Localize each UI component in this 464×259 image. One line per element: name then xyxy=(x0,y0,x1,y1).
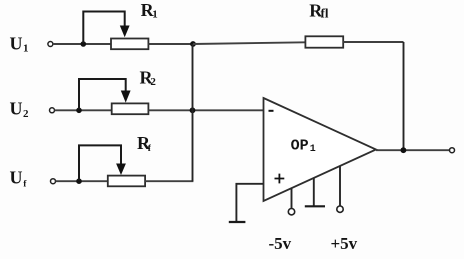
wire Rfl to feedback corner xyxy=(343,41,403,43)
svg-text:2: 2 xyxy=(23,108,29,120)
wire pin offset null xyxy=(313,178,315,206)
wire U1 terminal to R1 xyxy=(53,43,111,45)
svg-text:+5v: +5v xyxy=(331,234,358,253)
wiper arrow Rf xyxy=(116,164,126,176)
wire R1 to bus xyxy=(148,43,193,45)
node junction row1 bus xyxy=(190,41,196,47)
wire Rf to bus xyxy=(145,180,193,182)
resistor R1 xyxy=(111,39,148,50)
resistor Rfl xyxy=(305,36,343,47)
svg-text:-5v: -5v xyxy=(269,234,292,253)
svg-text:2: 2 xyxy=(150,76,156,88)
wire Uf terminal to Rf xyxy=(56,180,108,182)
node output terminal xyxy=(450,148,455,153)
svg-text:U: U xyxy=(10,168,23,188)
wire wiper loop R2 xyxy=(79,79,126,109)
node junction row2 bus xyxy=(190,107,196,113)
node junction row1 left xyxy=(81,41,87,47)
svg-text:fl: fl xyxy=(321,6,329,21)
svg-text:f: f xyxy=(23,180,27,190)
wire bus to feedback resistor Rfl xyxy=(193,42,305,44)
resistor R2 xyxy=(112,103,149,114)
wire output xyxy=(376,149,449,151)
svg-text:f: f xyxy=(148,144,152,154)
svg-text:1: 1 xyxy=(152,9,158,21)
wire pin V- xyxy=(291,188,293,208)
svg-text:1: 1 xyxy=(23,43,29,55)
wiper arrow R1 xyxy=(120,26,130,38)
resistor Rf xyxy=(108,176,145,187)
node Uf input terminal xyxy=(51,179,56,184)
node output junction xyxy=(401,147,407,153)
svg-text:U: U xyxy=(10,99,23,119)
node junction row3 left xyxy=(76,178,82,184)
label minus input xyxy=(269,110,274,112)
label plus input xyxy=(275,174,285,184)
op-amp OP1 xyxy=(264,98,377,201)
svg-text:1: 1 xyxy=(310,144,316,155)
wire summing bus vertical xyxy=(192,44,194,181)
wire pin V+ xyxy=(339,166,341,206)
svg-text:OP: OP xyxy=(291,137,309,154)
wire feedback vertical xyxy=(403,42,405,150)
node U1 input terminal xyxy=(48,42,53,47)
ground xyxy=(229,221,246,223)
wire noninverting input xyxy=(236,184,263,222)
terminal V- xyxy=(288,209,294,215)
wire wiper loop R1 xyxy=(83,12,124,44)
node junction row2 left xyxy=(76,108,82,114)
terminal V+ xyxy=(337,206,343,212)
wire R2 to op-amp inverting input xyxy=(148,109,263,111)
wire wiper loop Rf xyxy=(79,145,121,180)
wire U2 terminal to R2 xyxy=(55,109,112,111)
ground pin bar xyxy=(305,205,325,207)
wiper arrow R2 xyxy=(121,91,131,103)
node U2 input terminal xyxy=(50,108,55,113)
svg-text:U: U xyxy=(10,34,23,54)
